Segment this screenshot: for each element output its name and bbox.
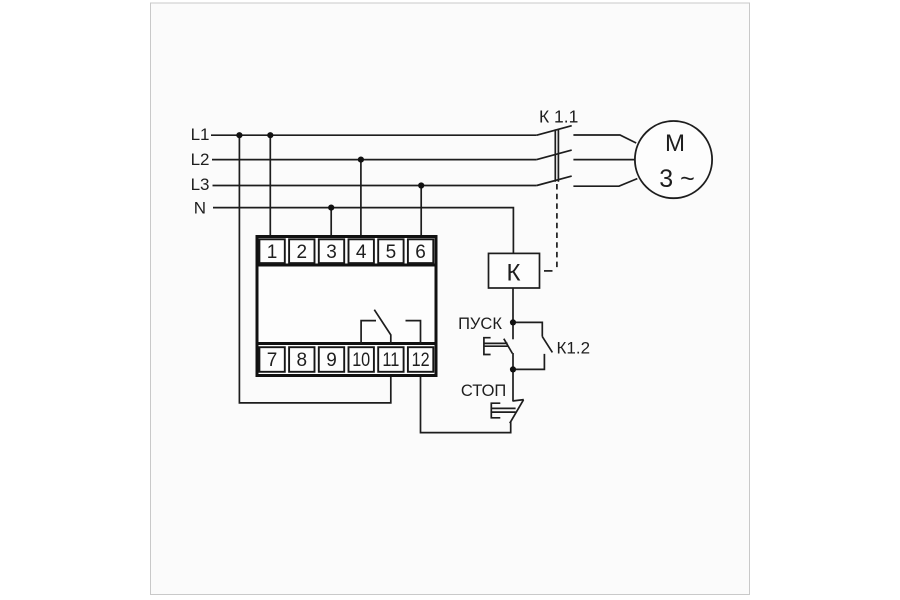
wire L2 to motor <box>573 159 635 161</box>
wire L3 feeder <box>213 185 537 187</box>
junction dot PUSK bottom <box>510 366 516 372</box>
PUSK button actuator <box>484 338 508 355</box>
junction dot N <box>328 205 334 211</box>
svg-text:ПУСК: ПУСК <box>458 315 502 333</box>
wire L1 to motor <box>573 135 636 143</box>
svg-text:3: 3 <box>326 242 337 263</box>
device top row separator <box>257 264 436 267</box>
junction dot L3 <box>418 182 424 188</box>
wire L3 to motor <box>573 179 637 187</box>
svg-text:12: 12 <box>412 350 430 371</box>
junction dot L2 <box>358 157 364 163</box>
device outline <box>257 237 436 376</box>
svg-text:7: 7 <box>267 350 278 371</box>
K1.2 bottom wire <box>513 354 544 370</box>
STOP contact top lead <box>512 369 514 401</box>
dashed linkage to coil K <box>556 184 558 268</box>
K1.1 linkage bar <box>555 129 558 181</box>
svg-text:L1: L1 <box>191 125 210 144</box>
K1.2 blade <box>542 337 552 353</box>
svg-text:2: 2 <box>297 242 308 263</box>
terminal numbers 7-12 <box>267 350 430 371</box>
terminal numbers 1-6 <box>267 242 426 263</box>
K1.1 blade phase L1 <box>537 126 572 136</box>
svg-text:4: 4 <box>356 242 367 263</box>
wire L2 feeder <box>212 159 537 161</box>
svg-text:9: 9 <box>326 350 337 371</box>
relay internal contact: terminal 12 bracket <box>406 321 421 344</box>
wire L2 to terminal 4 <box>360 160 362 237</box>
svg-text:N: N <box>194 198 206 217</box>
PUSK contact bottom lead <box>512 353 514 369</box>
svg-text:8: 8 <box>297 350 308 371</box>
K1.1 blade phase L3 <box>537 176 572 185</box>
STOP button actuator <box>491 403 515 418</box>
svg-text:1: 1 <box>267 242 278 263</box>
svg-text:L2: L2 <box>191 150 210 169</box>
svg-text:11: 11 <box>382 350 399 371</box>
relay internal contact: terminal 10 bracket <box>361 321 376 344</box>
svg-text:3 ~: 3 ~ <box>659 165 694 193</box>
svg-text:10: 10 <box>352 350 370 371</box>
K1.2 branch top wire <box>513 322 542 336</box>
svg-text:СТОП: СТОП <box>461 382 506 400</box>
svg-text:К1.2: К1.2 <box>557 339 591 358</box>
content panel <box>151 3 750 595</box>
svg-text:M: M <box>665 130 685 157</box>
terminal cells bottom (7-12) <box>259 347 433 372</box>
motor M circle <box>635 121 712 198</box>
relay internal contact: blade from terminal 11 <box>374 310 391 344</box>
svg-text:5: 5 <box>386 242 397 263</box>
junction dot PUSK top <box>510 319 516 325</box>
wire terminal 12 to STOP button <box>421 376 511 433</box>
svg-text:К 1.1: К 1.1 <box>539 107 578 127</box>
svg-text:К: К <box>507 260 521 287</box>
svg-text:L3: L3 <box>191 175 210 194</box>
PUSK contact top lead <box>512 322 514 339</box>
terminal cells top (1-6) <box>259 239 433 263</box>
wire N feeder, drops to coil K <box>213 208 513 254</box>
STOP contact blade <box>510 400 524 423</box>
K1.1 blade phase L2 <box>537 150 572 160</box>
wire L1 to terminal 1 <box>269 135 271 236</box>
STOP contact tick <box>512 400 523 401</box>
wire K coil to PUSK node <box>512 288 514 322</box>
svg-text:6: 6 <box>415 242 426 263</box>
wire N to terminal 3 <box>330 208 332 237</box>
wire L1 to terminal 11 bypass <box>239 135 390 403</box>
junction dot L1 bypass <box>236 132 242 138</box>
device bottom row separator <box>257 342 436 345</box>
contact K1.1 <box>537 126 638 271</box>
wire L3 to terminal 6 <box>420 186 422 237</box>
wire L1 feeder <box>211 134 537 136</box>
PUSK contact blade <box>504 339 513 354</box>
coil K box <box>489 253 540 288</box>
junction dot L1 terminal 1 <box>267 132 273 138</box>
